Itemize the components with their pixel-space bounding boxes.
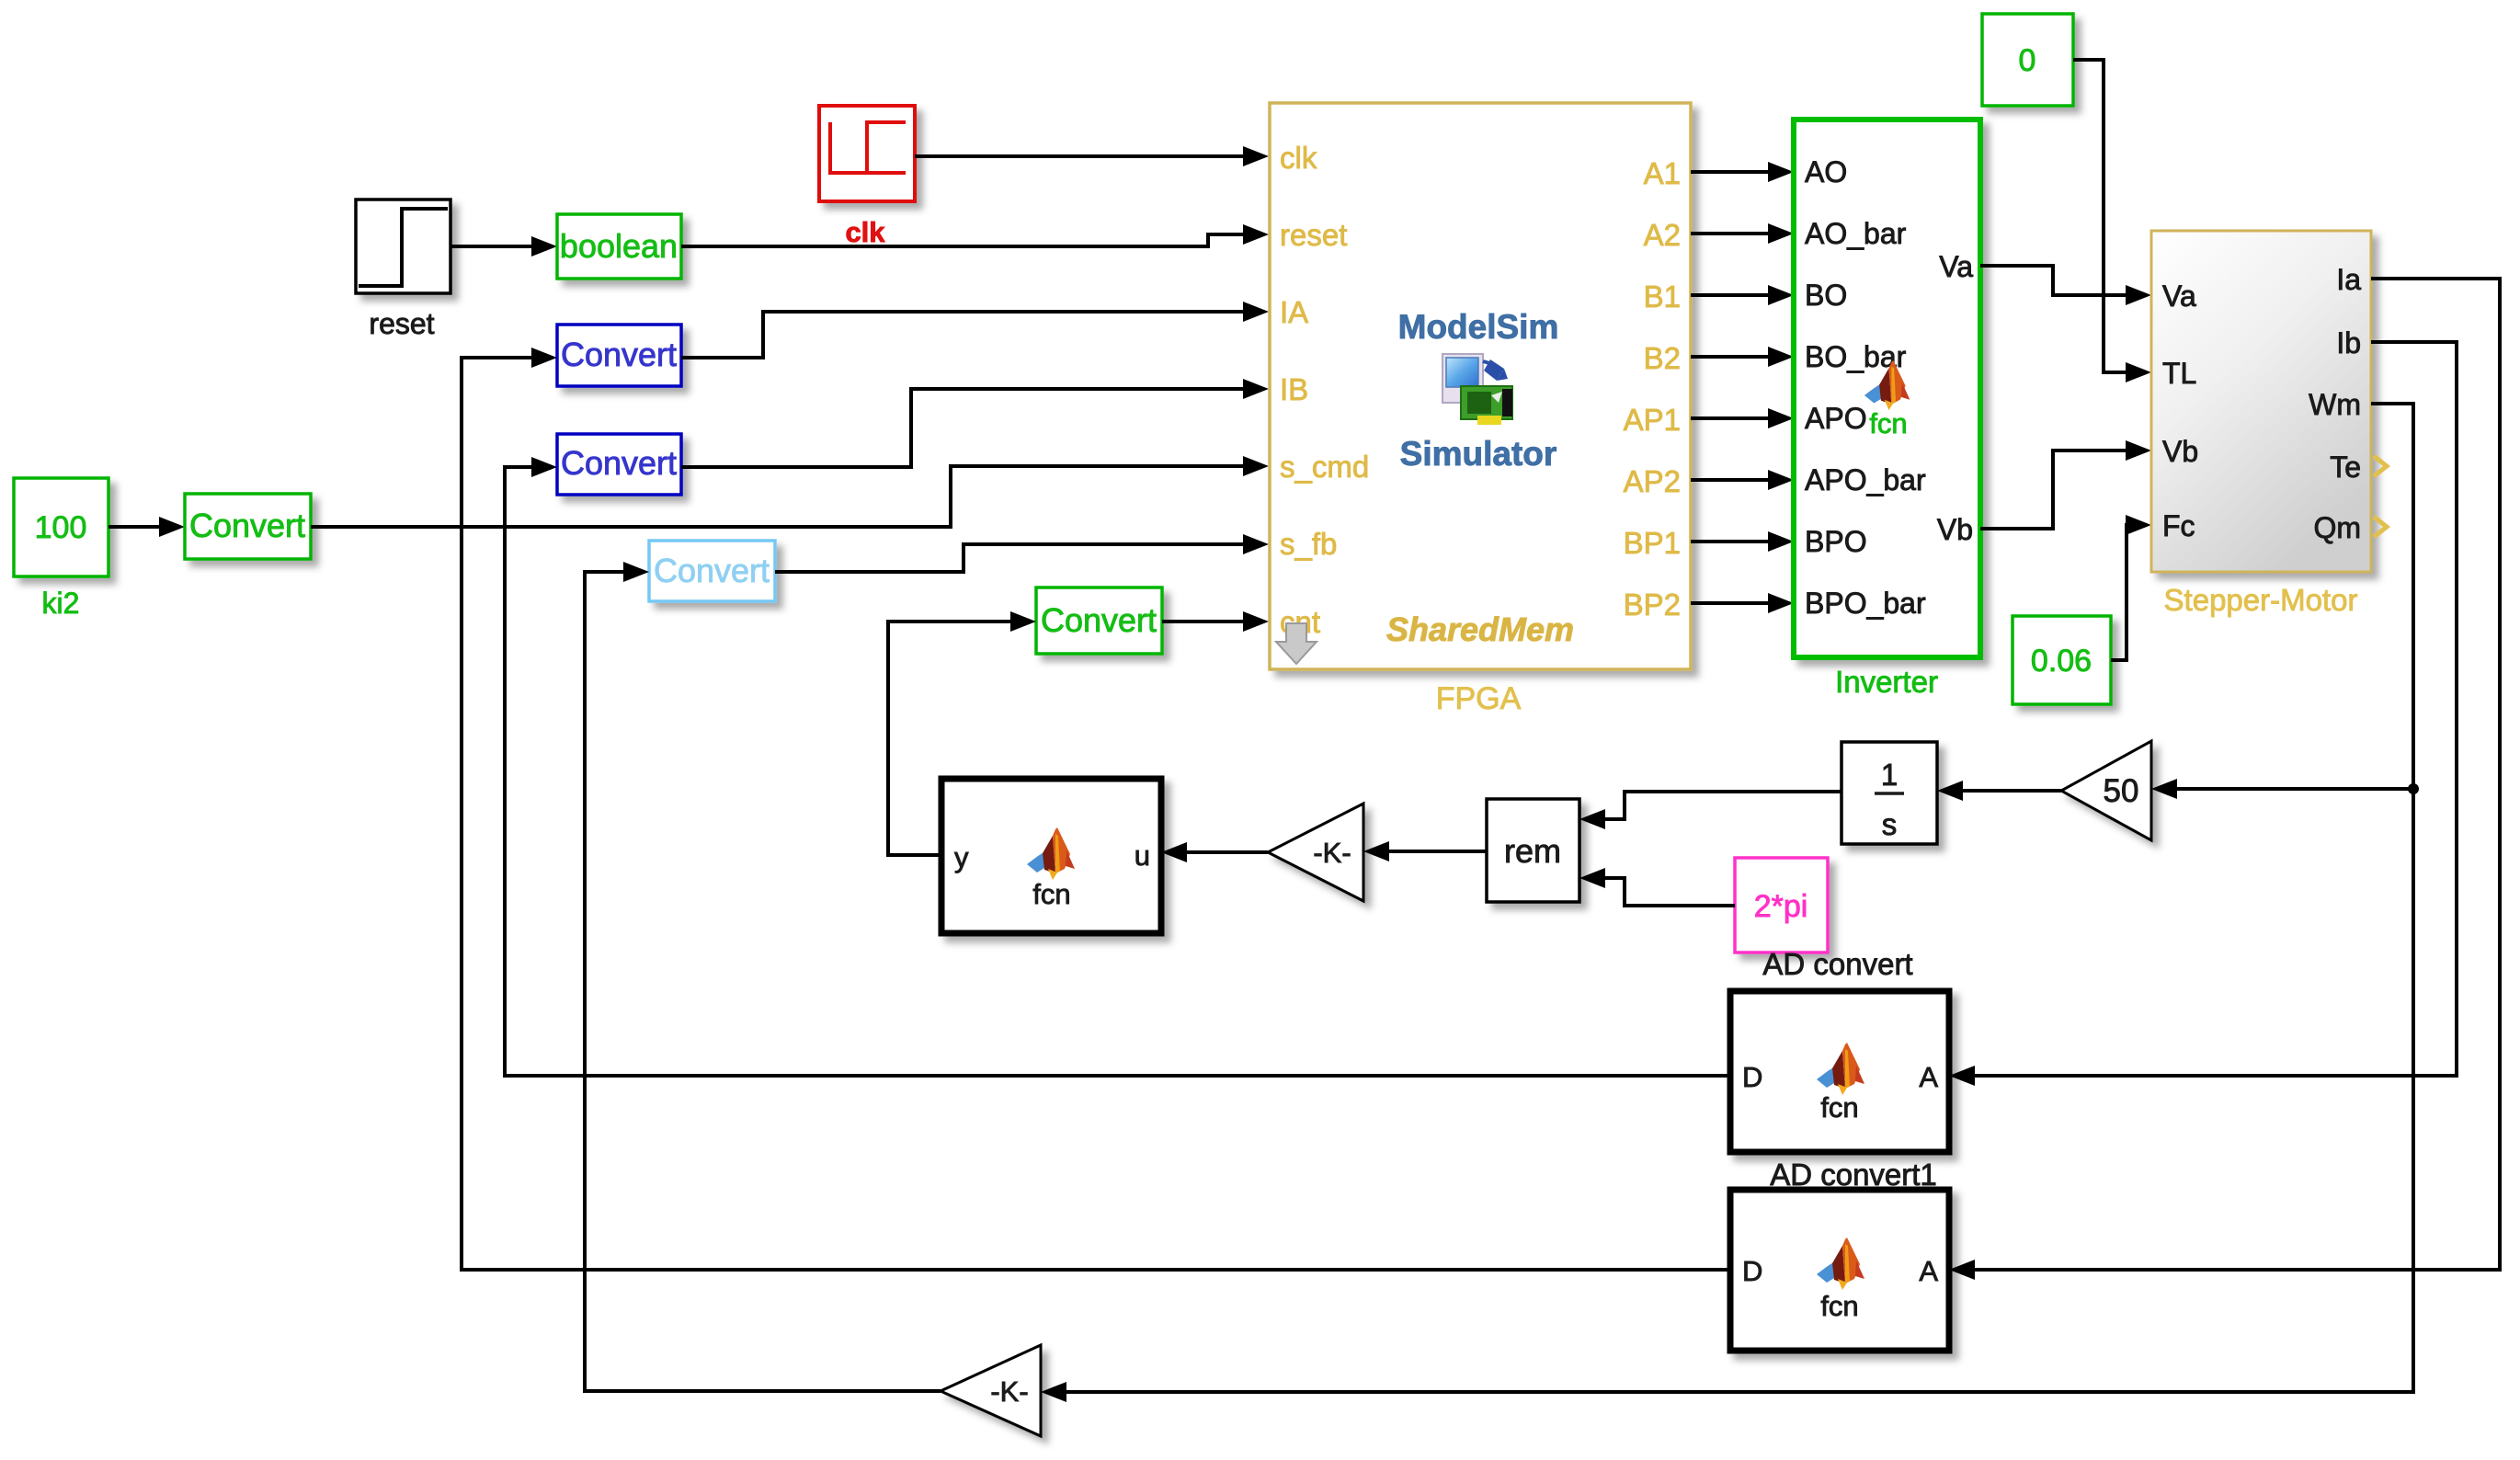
svg-text:0.06: 0.06 [2031, 644, 2092, 679]
svg-text:Vb: Vb [1937, 513, 1973, 546]
svg-text:IB: IB [1280, 372, 1308, 406]
wire constant 0.06 to Stepper Fc [2111, 525, 2127, 660]
data type conversion boolean [557, 214, 681, 279]
svg-text:Wm: Wm [2309, 388, 2361, 421]
svg-text:s_fb: s_fb [1280, 527, 1337, 561]
svg-text:A: A [1919, 1255, 1938, 1287]
svg-text:s_cmd: s_cmd [1280, 450, 1369, 484]
AD convert1 MATLAB logo [1817, 1238, 1864, 1290]
svg-text:AO: AO [1805, 155, 1847, 188]
wire A1 to AO [1691, 170, 1770, 174]
svg-text:Convert: Convert [654, 552, 770, 589]
svg-text:BO: BO [1805, 279, 1847, 312]
svg-text:-K-: -K- [1313, 837, 1351, 869]
svg-text:100: 100 [35, 510, 87, 545]
svg-text:Va: Va [1939, 250, 1973, 283]
svg-text:D: D [1742, 1061, 1762, 1093]
wire AD convert1 D to Convert1 [462, 358, 1730, 1270]
svg-text:Stepper-Motor: Stepper-Motor [2164, 583, 2358, 617]
svg-text:boolean: boolean [560, 227, 678, 265]
svg-text:AO_bar: AO_bar [1805, 217, 1907, 250]
constant 2*pi [1735, 858, 1828, 952]
integrator 1/s [1842, 742, 1937, 844]
svg-text:fcn: fcn [1869, 407, 1907, 439]
svg-text:D: D [1742, 1255, 1762, 1287]
svg-text:50: 50 [2104, 773, 2139, 809]
svg-text:APO: APO [1805, 402, 1867, 435]
Stepper unconnected output chevron Qm [2374, 517, 2387, 537]
svg-text:u: u [1135, 839, 1150, 872]
wire ki2 to Convert [108, 525, 161, 529]
wire BP2 to BPO_bar [1691, 601, 1770, 605]
wire bottom gain to Convert3 [585, 572, 941, 1391]
svg-text:SharedMem: SharedMem [1386, 610, 1574, 648]
svg-text:Va: Va [2162, 279, 2196, 313]
data type conversion Convert (green, s_cmd path) [185, 494, 311, 559]
MATLAB function block AD convert1 (lower) [1730, 1190, 1949, 1351]
data type conversion Convert4 (green, cnt path) [1036, 587, 1162, 654]
svg-text:Convert: Convert [189, 507, 305, 544]
svg-text:AD convert1: AD convert1 [1770, 1158, 1937, 1192]
FPGA gray down arrow icon [1276, 623, 1317, 664]
wire constant 0 to Stepper TL [2073, 60, 2127, 372]
wire boolean to reset port [681, 234, 1245, 246]
svg-text:Ia: Ia [2336, 263, 2361, 296]
svg-text:reset: reset [369, 307, 434, 340]
wire gain -K- to fcn u [1185, 850, 1268, 854]
data type conversion Convert1 (blue, IA path) [557, 325, 681, 386]
wire gain 50 to integrator [1961, 789, 2061, 793]
step source reset [356, 200, 450, 293]
svg-text:Inverter: Inverter [1835, 665, 1938, 699]
constant 0 [1982, 14, 2073, 106]
wire B2 to BO_bar [1691, 355, 1770, 359]
wire Convert2 to IB [681, 389, 1245, 467]
Inverter MATLAB logo [1864, 360, 1910, 410]
Stepper-Motor subsystem block [2151, 231, 2371, 572]
wire Stepper Ia to AD convert1 A [1973, 279, 2500, 1270]
math function rem [1487, 799, 1579, 902]
wire A2 to AO_bar [1691, 232, 1770, 235]
wire integrator to rem upper input [1603, 792, 1842, 819]
svg-text:Te: Te [2330, 451, 2361, 484]
svg-text:APO_bar: APO_bar [1805, 463, 1926, 496]
svg-text:BP1: BP1 [1624, 526, 1681, 560]
FPGA ModelSim icon (computer + board + arrow) [1442, 354, 1512, 425]
svg-text:B1: B1 [1644, 279, 1681, 314]
svg-text:BP2: BP2 [1624, 587, 1681, 622]
svg-text:1: 1 [1881, 758, 1898, 792]
wire Convert4 to cnt [1162, 620, 1245, 623]
wire Stepper Wm down to bottom gain [1065, 404, 2413, 1392]
svg-text:FPGA: FPGA [1436, 681, 1522, 716]
svg-text:fcn: fcn [1820, 1290, 1858, 1322]
svg-text:-K-: -K- [990, 1375, 1028, 1408]
svg-text:clk: clk [845, 216, 885, 248]
svg-text:IA: IA [1280, 295, 1308, 329]
fcn MATLAB logo [1027, 827, 1075, 880]
svg-text:AD convert: AD convert [1762, 947, 1912, 981]
svg-text:fcn: fcn [1032, 878, 1070, 910]
svg-text:Convert: Convert [561, 444, 677, 482]
gain 50 (triangle) [2061, 741, 2151, 840]
svg-text:ki2: ki2 [42, 587, 80, 620]
wire clk to FPGA clk [915, 154, 1245, 158]
wire AP2 to APO_bar [1691, 478, 1770, 482]
svg-text:Convert: Convert [1041, 601, 1157, 639]
wire B1 to BO [1691, 293, 1770, 297]
wire AP1 to APO [1691, 416, 1770, 420]
svg-text:ModelSim: ModelSim [1398, 308, 1559, 346]
wire 2*pi to rem lower input [1603, 878, 1735, 906]
svg-text:Fc: Fc [2162, 509, 2195, 542]
wire Convert3 to s_fb [775, 544, 1245, 572]
svg-text:B2: B2 [1644, 341, 1681, 375]
data type conversion Convert3 (light blue, s_fb path) [649, 541, 775, 601]
constant 0.06 [2013, 616, 2111, 704]
svg-text:TL: TL [2162, 357, 2196, 390]
svg-text:A: A [1919, 1061, 1938, 1093]
svg-text:A2: A2 [1644, 218, 1681, 252]
svg-text:A1: A1 [1644, 156, 1681, 190]
svg-text:reset: reset [1280, 218, 1347, 252]
svg-text:fcn: fcn [1820, 1091, 1858, 1124]
svg-text:AP1: AP1 [1624, 403, 1681, 437]
gain -K- (middle) [1268, 804, 1363, 901]
data type conversion Convert2 (blue, IB path) [557, 434, 681, 495]
svg-text:Vb: Vb [2162, 435, 2198, 468]
wire Inverter Va to Stepper Va [1980, 266, 2127, 295]
wire Inverter Vb to Stepper Vb [1980, 451, 2127, 529]
wire Convert1 to IA [681, 312, 1245, 358]
wire Stepper Ib to AD convert A [1973, 342, 2457, 1076]
Stepper unconnected output chevron Te [2374, 456, 2387, 476]
svg-text:y: y [954, 841, 969, 873]
FPGA ModelSim cosimulation block [1270, 103, 1691, 669]
MATLAB function block fcn (y/u) [941, 779, 1161, 933]
wire BP1 to BPO [1691, 540, 1770, 543]
svg-text:0: 0 [2019, 43, 2036, 78]
constant ki2 (100) [14, 478, 108, 576]
svg-text:BPO: BPO [1805, 525, 1867, 558]
junction Wm branch [2408, 783, 2419, 794]
gain -K- (bottom) [941, 1345, 1041, 1436]
wire Convert to s_cmd [311, 466, 1245, 527]
svg-text:clk: clk [1280, 141, 1317, 175]
wire Wm branch to gain 50 [2175, 787, 2413, 791]
AD convert MATLAB logo [1817, 1043, 1864, 1095]
wire rem to gain -K- [1387, 850, 1487, 853]
pulse generator clk [819, 106, 915, 201]
wire AD convert D to Convert2 [505, 467, 1730, 1076]
svg-text:rem: rem [1504, 832, 1561, 870]
svg-text:Convert: Convert [561, 336, 677, 373]
MATLAB function block AD convert (upper) [1730, 991, 1949, 1152]
svg-text:s: s [1882, 807, 1898, 841]
svg-text:Simulator: Simulator [1400, 435, 1557, 473]
Inverter MATLAB function block [1794, 120, 1980, 657]
wire reset to boolean [450, 245, 533, 248]
svg-text:Ib: Ib [2336, 326, 2361, 359]
svg-text:Qm: Qm [2313, 511, 2361, 544]
svg-text:BPO_bar: BPO_bar [1805, 587, 1926, 620]
svg-text:2*pi: 2*pi [1754, 889, 1808, 924]
wire fcn y output to Convert4 [888, 622, 1012, 855]
svg-text:AP2: AP2 [1624, 464, 1681, 498]
